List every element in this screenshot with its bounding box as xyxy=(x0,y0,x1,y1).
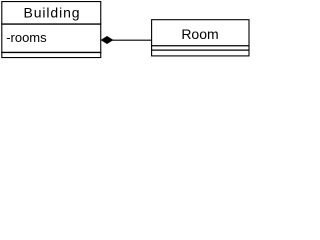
class Building title divider xyxy=(1,23,101,25)
class Building methods divider xyxy=(1,51,101,53)
composition diamond at Building end xyxy=(102,37,113,44)
svg-text:Room: Room xyxy=(181,26,218,42)
composition association wire xyxy=(112,39,152,41)
class Room title divider xyxy=(151,45,249,47)
class Room box xyxy=(152,20,249,56)
svg-text:Building: Building xyxy=(23,5,80,21)
class Building box xyxy=(2,2,101,58)
svg-text:-rooms: -rooms xyxy=(6,30,47,45)
class Room methods divider xyxy=(151,49,249,51)
